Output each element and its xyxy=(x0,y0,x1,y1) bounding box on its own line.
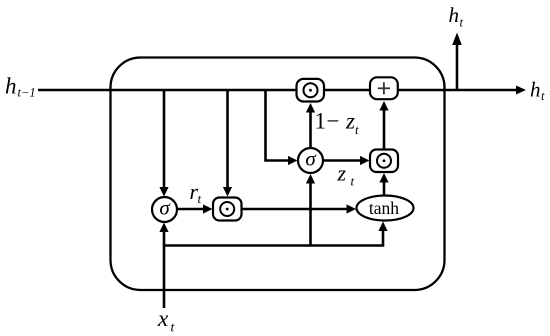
op-box plus on h-line xyxy=(370,77,398,99)
svg-text:z: z xyxy=(345,109,355,134)
svg-text:t: t xyxy=(460,16,464,30)
gate odot z box xyxy=(370,150,398,173)
arrowhead into odot z bottom xyxy=(379,173,388,183)
gate tanh ellipse xyxy=(357,196,414,221)
arrowhead into odot r top xyxy=(223,187,232,197)
svg-text:h: h xyxy=(449,3,460,27)
arrowhead into sigma r top xyxy=(159,187,168,197)
svg-text:tanh: tanh xyxy=(369,198,399,218)
svg-text:−: − xyxy=(327,109,340,134)
svg-text:σ: σ xyxy=(159,195,171,219)
wire odot r to tanh xyxy=(242,208,348,211)
op-box odot h on h-line xyxy=(297,79,325,102)
wire sigma r to odot r xyxy=(177,208,205,211)
svg-text:t: t xyxy=(351,174,355,189)
wire x branch horizontal to tanh bottom xyxy=(164,231,383,246)
arrowhead into tanh bottom xyxy=(378,222,387,232)
wire x_t up into sigma r xyxy=(163,232,166,309)
wire drop to odot r xyxy=(226,90,229,188)
wire h main horizontal line xyxy=(38,89,517,92)
wire h_t up output xyxy=(456,45,459,91)
arrowhead into odot h bottom xyxy=(306,103,315,113)
wire sigma z to odot z xyxy=(323,159,362,162)
wire elbow drop to sigma z xyxy=(266,90,290,161)
arrowhead into sigma z bottom xyxy=(306,174,315,184)
svg-text:t: t xyxy=(541,89,545,103)
wire odot z up to plus xyxy=(383,110,386,149)
gate odot r box xyxy=(213,198,242,221)
arrowhead into odot z left xyxy=(360,156,370,165)
arrowhead h_t right xyxy=(516,86,526,95)
wire drop to sigma r xyxy=(163,90,166,188)
wire tanh up to odot z xyxy=(383,182,386,195)
wire x branch up to sigma z bottom xyxy=(309,183,312,246)
svg-text:t−1: t−1 xyxy=(18,86,36,100)
arrowhead into odot r left xyxy=(203,204,213,213)
arrowhead h_t up xyxy=(452,33,462,46)
svg-text:t: t xyxy=(198,191,202,206)
svg-text:z: z xyxy=(337,161,347,186)
cell boundary rounded box xyxy=(111,58,445,291)
wire sigma z up to odot h xyxy=(309,112,312,148)
gate sigma r circle xyxy=(152,197,177,222)
svg-text:t: t xyxy=(171,320,176,335)
svg-text:x: x xyxy=(157,306,169,331)
svg-text:t: t xyxy=(355,122,359,137)
svg-text:σ: σ xyxy=(305,146,317,170)
gate sigma z circle xyxy=(298,148,323,173)
arrowhead into sigma z left xyxy=(288,156,298,165)
arrowhead into plus bottom xyxy=(379,101,388,111)
arrowhead into tanh left xyxy=(347,204,357,213)
svg-text:h: h xyxy=(530,78,541,102)
svg-text:1: 1 xyxy=(315,109,327,134)
svg-text:h: h xyxy=(5,74,17,99)
arrowhead into sigma r bottom xyxy=(159,223,168,233)
